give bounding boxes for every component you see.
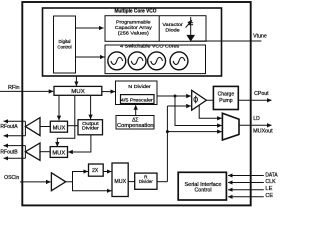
wire VCO to MUX1 [75,77,77,86]
svg-text:DATA: DATA [265,173,278,179]
wire R path vertical [166,106,168,182]
wire R path to PFD [167,105,190,107]
svg-text:Programmable: Programmable [116,20,151,26]
wire N Divider to PFD [157,95,191,97]
Charge Pump block [213,86,238,109]
svg-text:4 Switchable VCO Cores: 4 Switchable VCO Cores [120,44,180,50]
node N divider output junction [174,95,177,98]
wire MUX1 to Output Divider [90,95,92,119]
svg-text:MUX: MUX [71,89,85,95]
output MUX trapezoid [222,113,239,140]
svg-text:MUX: MUX [52,150,66,156]
svg-text:Control: Control [57,45,71,51]
svg-text:Multiple Core VCO: Multiple Core VCO [115,9,157,15]
svg-text:Vtune: Vtune [253,33,267,39]
svg-text:RFoutB: RFoutB [0,149,18,155]
VCO core 2 [128,52,146,70]
svg-text:MUXout: MUXout [253,129,273,135]
svg-text:OSCin: OSCin [4,175,19,181]
2X doubler block [89,164,104,176]
RFoutB buffer [25,143,40,160]
wire RFoutA stub [24,121,26,136]
svg-text:MUX: MUX [53,125,67,131]
wire MUX1 down to MUX3 [57,95,75,146]
Output Divider block [78,120,103,135]
svg-text:CPout: CPout [254,91,269,97]
RFoutA buffer [25,118,40,136]
wire RFoutA+ [4,120,26,122]
wire buffer to junction [66,181,73,183]
svg-text:Charge: Charge [218,91,235,97]
delta-sigma compensation block [116,116,154,130]
wire MUXout output [239,124,272,126]
Multiple Core VCO box [43,8,222,76]
wire to 2X doubler [73,172,88,182]
svg-text:Divider: Divider [82,126,99,132]
wire PFD to charge pump [206,99,213,101]
node R path junction [166,130,169,133]
wire MUX4 to R Divider [128,181,135,183]
wire R junction to output MUX input C [167,131,221,133]
svg-text:(256 Values): (256 Values) [118,31,149,37]
svg-text:Capacitor Array: Capacitor Array [115,25,153,31]
wire RFoutB- [4,157,26,159]
wire CPout output [238,99,271,101]
op-amp PFD phase detector [192,90,207,110]
wire CLK [228,182,264,184]
wire Output Divider to MUX3 [68,135,91,152]
wire digital control to capacitor array [76,27,104,29]
svg-text:2X: 2X [92,168,99,174]
MUX4 block [112,163,128,197]
capacitor/varactor row box [105,16,206,42]
svg-text:Divider: Divider [139,179,153,184]
wire 2X to MUX4 [103,171,111,173]
N Divider block [116,81,158,105]
wire delta-sigma to N Divider [135,105,137,115]
svg-text:Control: Control [195,188,212,194]
OSCin buffer [51,173,65,191]
Serial Interface Control block [178,172,226,200]
svg-text:CLK: CLK [265,179,276,185]
varactor diode symbol [186,17,195,41]
wire R Divider output [157,181,167,183]
MUX1 block [54,86,102,95]
wire CE [228,196,264,198]
4 Switchable VCO Cores box [105,45,206,74]
wire PFD to output MUX input A [199,105,222,119]
MUX2 block [50,121,67,132]
svg-text:Compensation: Compensation [117,123,154,129]
svg-text:Pump: Pump [219,98,233,104]
svg-text:RFin: RFin [8,85,20,91]
wire DATA [228,175,264,177]
svg-text:LD: LD [253,116,260,122]
wire N junction to output MUX input B [175,96,222,126]
4/5 Prescaler block [121,95,155,104]
wire OSCin input [20,181,51,183]
svg-text:Diode: Diode [165,28,180,34]
wire buffer A to MUX2 [40,126,50,128]
svg-text:MUX: MUX [114,179,126,185]
wire RFoutA- [4,135,26,137]
wire digital control to VCO cores [76,56,105,58]
VCO core 4 [170,52,188,70]
divider between capacitor array and varactor cells [158,16,160,42]
wire Output Divider to MUX2 [68,125,78,127]
wire RFoutB+ [4,145,26,147]
svg-text:CE: CE [265,193,273,199]
wire RFoutB stub [24,146,26,159]
wire Vtune output [191,40,262,42]
label phi in PFD (drawn) [194,96,198,104]
VCO core 1 [108,52,126,70]
svg-text:4/5 Prescaler: 4/5 Prescaler [121,98,153,104]
chip outer border [22,2,250,205]
svg-text:LE: LE [265,186,273,192]
svg-text:Digital: Digital [59,39,71,45]
svg-text:RFoutA: RFoutA [0,124,18,130]
R Divider block [135,173,157,189]
MUX3 block [50,147,67,158]
wire RFin input [0,90,53,92]
wire to MUX4 lower input [73,182,112,191]
Digital Control block [54,16,76,73]
wire MUX1 to MUX2 [58,95,60,120]
wire MUX1 to N Divider [102,91,115,93]
svg-text:N Divider: N Divider [128,84,151,90]
svg-text:Varactor: Varactor [162,22,183,28]
VCO core 3 [148,52,166,70]
wire buffer B to MUX3 [40,151,50,153]
wire LE [228,189,264,191]
